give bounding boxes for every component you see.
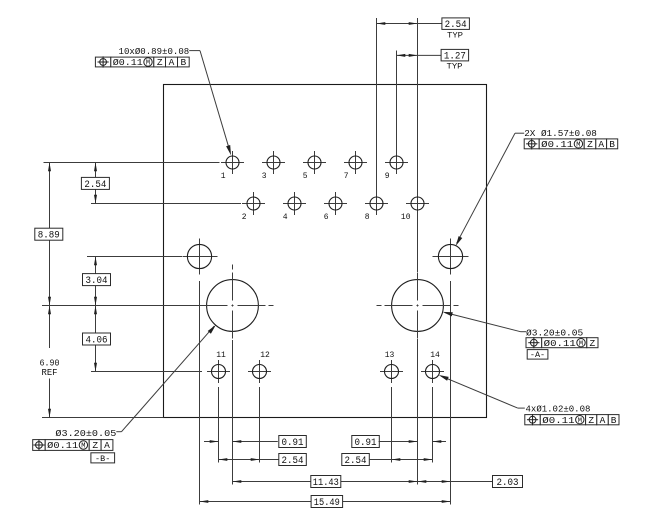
hole medium right (2X dia1.57)	[433, 239, 469, 275]
hole 13	[380, 351, 403, 383]
hole 12	[248, 351, 271, 383]
extension line bottom edge	[42, 417, 164, 419]
svg-text:M: M	[579, 340, 583, 348]
svg-text:12: 12	[260, 351, 270, 360]
callout 2X dia1.57 with FCF	[456, 128, 618, 246]
callout dia3.20 datum A with FCF	[443, 312, 598, 360]
extension line hole10 / large right column	[417, 18, 419, 485]
dimension 2.03	[418, 476, 523, 489]
svg-text:2.03: 2.03	[497, 478, 519, 489]
extension line hole13 column	[391, 387, 393, 463]
svg-text:8.89: 8.89	[38, 231, 60, 242]
dimension 2.54 bottom-left	[219, 454, 307, 467]
dimension 15.49	[200, 496, 451, 509]
svg-text:0.91: 0.91	[282, 438, 304, 449]
callout 10x dia0.89 with FCF	[95, 46, 231, 155]
extension line large-left column	[232, 340, 234, 485]
hole 6	[324, 192, 347, 222]
hole 1	[221, 151, 244, 181]
svg-text:Z: Z	[587, 139, 593, 150]
hole 3	[262, 151, 285, 181]
svg-text:A: A	[600, 415, 606, 426]
svg-text:10xØ0.89±0.08: 10xØ0.89±0.08	[119, 46, 190, 57]
svg-text:1: 1	[221, 172, 226, 181]
svg-text:A: A	[598, 139, 604, 150]
svg-text:A: A	[169, 57, 175, 68]
svg-text:B: B	[609, 139, 615, 150]
svg-text:Ø0.11: Ø0.11	[542, 415, 575, 426]
svg-text:Z: Z	[588, 415, 594, 426]
extension line hole14 column	[432, 387, 434, 463]
svg-text:11: 11	[216, 351, 226, 360]
dimension 8.89	[35, 163, 63, 306]
svg-text:TYP: TYP	[447, 32, 463, 41]
svg-text:2.54: 2.54	[445, 20, 467, 31]
svg-text:M: M	[81, 443, 85, 451]
svg-text:0.91: 0.91	[355, 438, 377, 449]
svg-text:A: A	[104, 440, 110, 451]
dimension 2.54 TYP top	[377, 18, 470, 41]
svg-text:14: 14	[430, 351, 440, 360]
extension line hole8 column	[376, 18, 378, 215]
hole 8	[365, 192, 388, 222]
svg-text:2.54: 2.54	[282, 456, 304, 467]
svg-text:M: M	[578, 417, 582, 425]
extension line hole12 column	[259, 387, 261, 463]
dimension 11.43	[233, 476, 418, 489]
hole 10	[401, 192, 429, 222]
svg-text:M: M	[146, 60, 150, 68]
svg-text:Ø3.20±0.05: Ø3.20±0.05	[55, 428, 116, 439]
svg-text:15.49: 15.49	[314, 498, 340, 509]
extension line row2	[91, 203, 241, 205]
dimension 6.90 REF	[40, 306, 60, 418]
hole 7	[344, 151, 367, 181]
svg-text:Z: Z	[157, 57, 163, 68]
svg-text:3: 3	[262, 172, 267, 181]
hole 9	[385, 151, 408, 181]
svg-text:2X Ø1.57±0.08: 2X Ø1.57±0.08	[524, 128, 597, 139]
dimension 4.06	[83, 306, 111, 372]
hole 5	[303, 151, 326, 181]
extension line medium-left column	[199, 281, 201, 505]
svg-text:11.43: 11.43	[313, 478, 339, 489]
part outline	[164, 85, 487, 418]
svg-text:Ø0.11: Ø0.11	[544, 338, 576, 349]
svg-text:13: 13	[385, 351, 395, 360]
svg-text:-A-: -A-	[530, 350, 545, 360]
svg-text:3.04: 3.04	[86, 276, 108, 287]
svg-text:Z: Z	[92, 440, 98, 451]
dimension 1.27 TYP	[397, 49, 469, 71]
callout dia3.20 datum B with FCF	[33, 325, 216, 464]
svg-text:Ø0.11: Ø0.11	[47, 440, 78, 451]
svg-text:4: 4	[283, 213, 288, 222]
hole large right (dia3.20 datum A)	[377, 265, 459, 347]
extension line row 11-14	[91, 371, 202, 373]
svg-text:Z: Z	[590, 338, 596, 349]
svg-text:B: B	[180, 57, 186, 68]
extension line medium row	[87, 256, 182, 258]
svg-text:-B-: -B-	[95, 454, 110, 464]
svg-text:Ø0.11: Ø0.11	[541, 139, 573, 150]
dimension 3.04	[83, 257, 111, 306]
extension line row1	[44, 162, 220, 164]
svg-text:B: B	[611, 415, 617, 426]
hole medium left (2X dia1.57)	[183, 239, 218, 275]
extension line medium-right column	[450, 281, 452, 505]
svg-text:6: 6	[324, 213, 329, 222]
svg-text:10: 10	[401, 213, 411, 222]
hole 11	[207, 351, 230, 383]
hole 14	[421, 351, 444, 383]
hole 4	[283, 192, 306, 222]
svg-text:1.27: 1.27	[444, 52, 466, 63]
svg-text:Ø0.11: Ø0.11	[113, 57, 143, 68]
svg-text:2: 2	[242, 213, 247, 222]
extension line hole11 column	[218, 387, 220, 463]
svg-text:5: 5	[303, 172, 308, 181]
svg-text:TYP: TYP	[447, 63, 463, 72]
svg-text:2.54: 2.54	[345, 456, 367, 467]
dimension 0.91 right	[352, 436, 446, 449]
svg-text:2.54: 2.54	[84, 180, 106, 191]
extension line hole9 column	[396, 51, 398, 174]
svg-text:4xØ1.02±0.08: 4xØ1.02±0.08	[526, 404, 591, 415]
callout 4x dia1.02 with FCF	[439, 375, 619, 426]
svg-text:4.06: 4.06	[86, 335, 108, 346]
svg-text:7: 7	[344, 172, 349, 181]
svg-text:9: 9	[385, 172, 390, 181]
hole large left (dia3.20 datum B)	[192, 265, 274, 347]
dimension 0.91 left	[204, 436, 306, 449]
dimension 2.54 left	[81, 163, 109, 204]
hole 2	[242, 192, 265, 222]
extension line large row	[42, 305, 199, 307]
svg-text:Ø3.20±0.05: Ø3.20±0.05	[526, 327, 583, 338]
svg-text:REF: REF	[42, 368, 58, 378]
dimension 2.54 bottom-right	[342, 454, 433, 467]
svg-text:8: 8	[365, 213, 370, 222]
svg-text:M: M	[576, 141, 580, 149]
